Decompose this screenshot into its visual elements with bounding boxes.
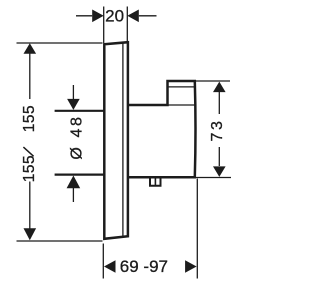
dim 73: bottom arrowhead [213, 166, 226, 177]
dim 155/155: top arrowhead [24, 43, 37, 54]
svg-text:155: 155 [21, 105, 38, 132]
handle chamfer line [168, 86, 195, 88]
dim 73: bottom extension line [196, 177, 231, 179]
dim 155/155: bottom arrowhead [24, 228, 37, 240]
dim 20: right arrowhead [127, 10, 139, 23]
dim 20: left arrowhead [92, 10, 104, 23]
dim Ø48: top arrow tail [72, 85, 74, 100]
dim 155/155: dimension line lower part [29, 182, 31, 232]
dim 69-97: left extension line [102, 244, 104, 279]
dim 155/155: bottom extension line [17, 240, 103, 242]
dim 73: top arrowhead [213, 82, 226, 93]
dim 69-97: left arrowhead [104, 260, 116, 273]
dim 155/155: top extension line [17, 42, 103, 44]
dim 20: left tail [76, 15, 92, 17]
svg-text:155: 155 [21, 155, 38, 182]
svg-text:73: 73 [209, 119, 226, 142]
dim Ø48: top arrowhead (pointing down) [67, 99, 80, 110]
bottom connection notch [150, 177, 161, 185]
dim 20: right extension line [126, 7, 128, 42]
valve body sleeve and handle outline [129, 81, 196, 177]
dim 155/155: label slash stroke [23, 147, 33, 156]
svg-text:20: 20 [105, 7, 124, 26]
dim 20: left extension line [103, 7, 105, 44]
dim 73: dimension line lower part [218, 147, 220, 166]
handle/sleeve junction line [168, 104, 195, 106]
dim 69-97: right arrowhead [185, 260, 197, 273]
dim 69-97: right extension line [196, 179, 198, 279]
svg-text:69 -97: 69 -97 [120, 257, 168, 276]
dim Ø48: bottom arrow tail [72, 186, 74, 202]
notch divider [154, 177, 156, 185]
svg-text:Ø 48: Ø 48 [69, 115, 86, 160]
dim Ø48: top reference line [55, 110, 104, 112]
dim 20: right tail [139, 15, 157, 17]
dim 73: top extension line [196, 80, 230, 82]
dim Ø48: bottom arrowhead (pointing up) [67, 176, 81, 189]
dim 73: dimension line upper part [218, 92, 220, 114]
dim 155/155: dimension line upper part [29, 52, 31, 99]
wall plate inner face line [122, 43, 124, 237]
wall plate outline (side view, slightly slanted top/bottom) [104, 42, 128, 239]
dim Ø48: bottom reference line [55, 174, 104, 176]
